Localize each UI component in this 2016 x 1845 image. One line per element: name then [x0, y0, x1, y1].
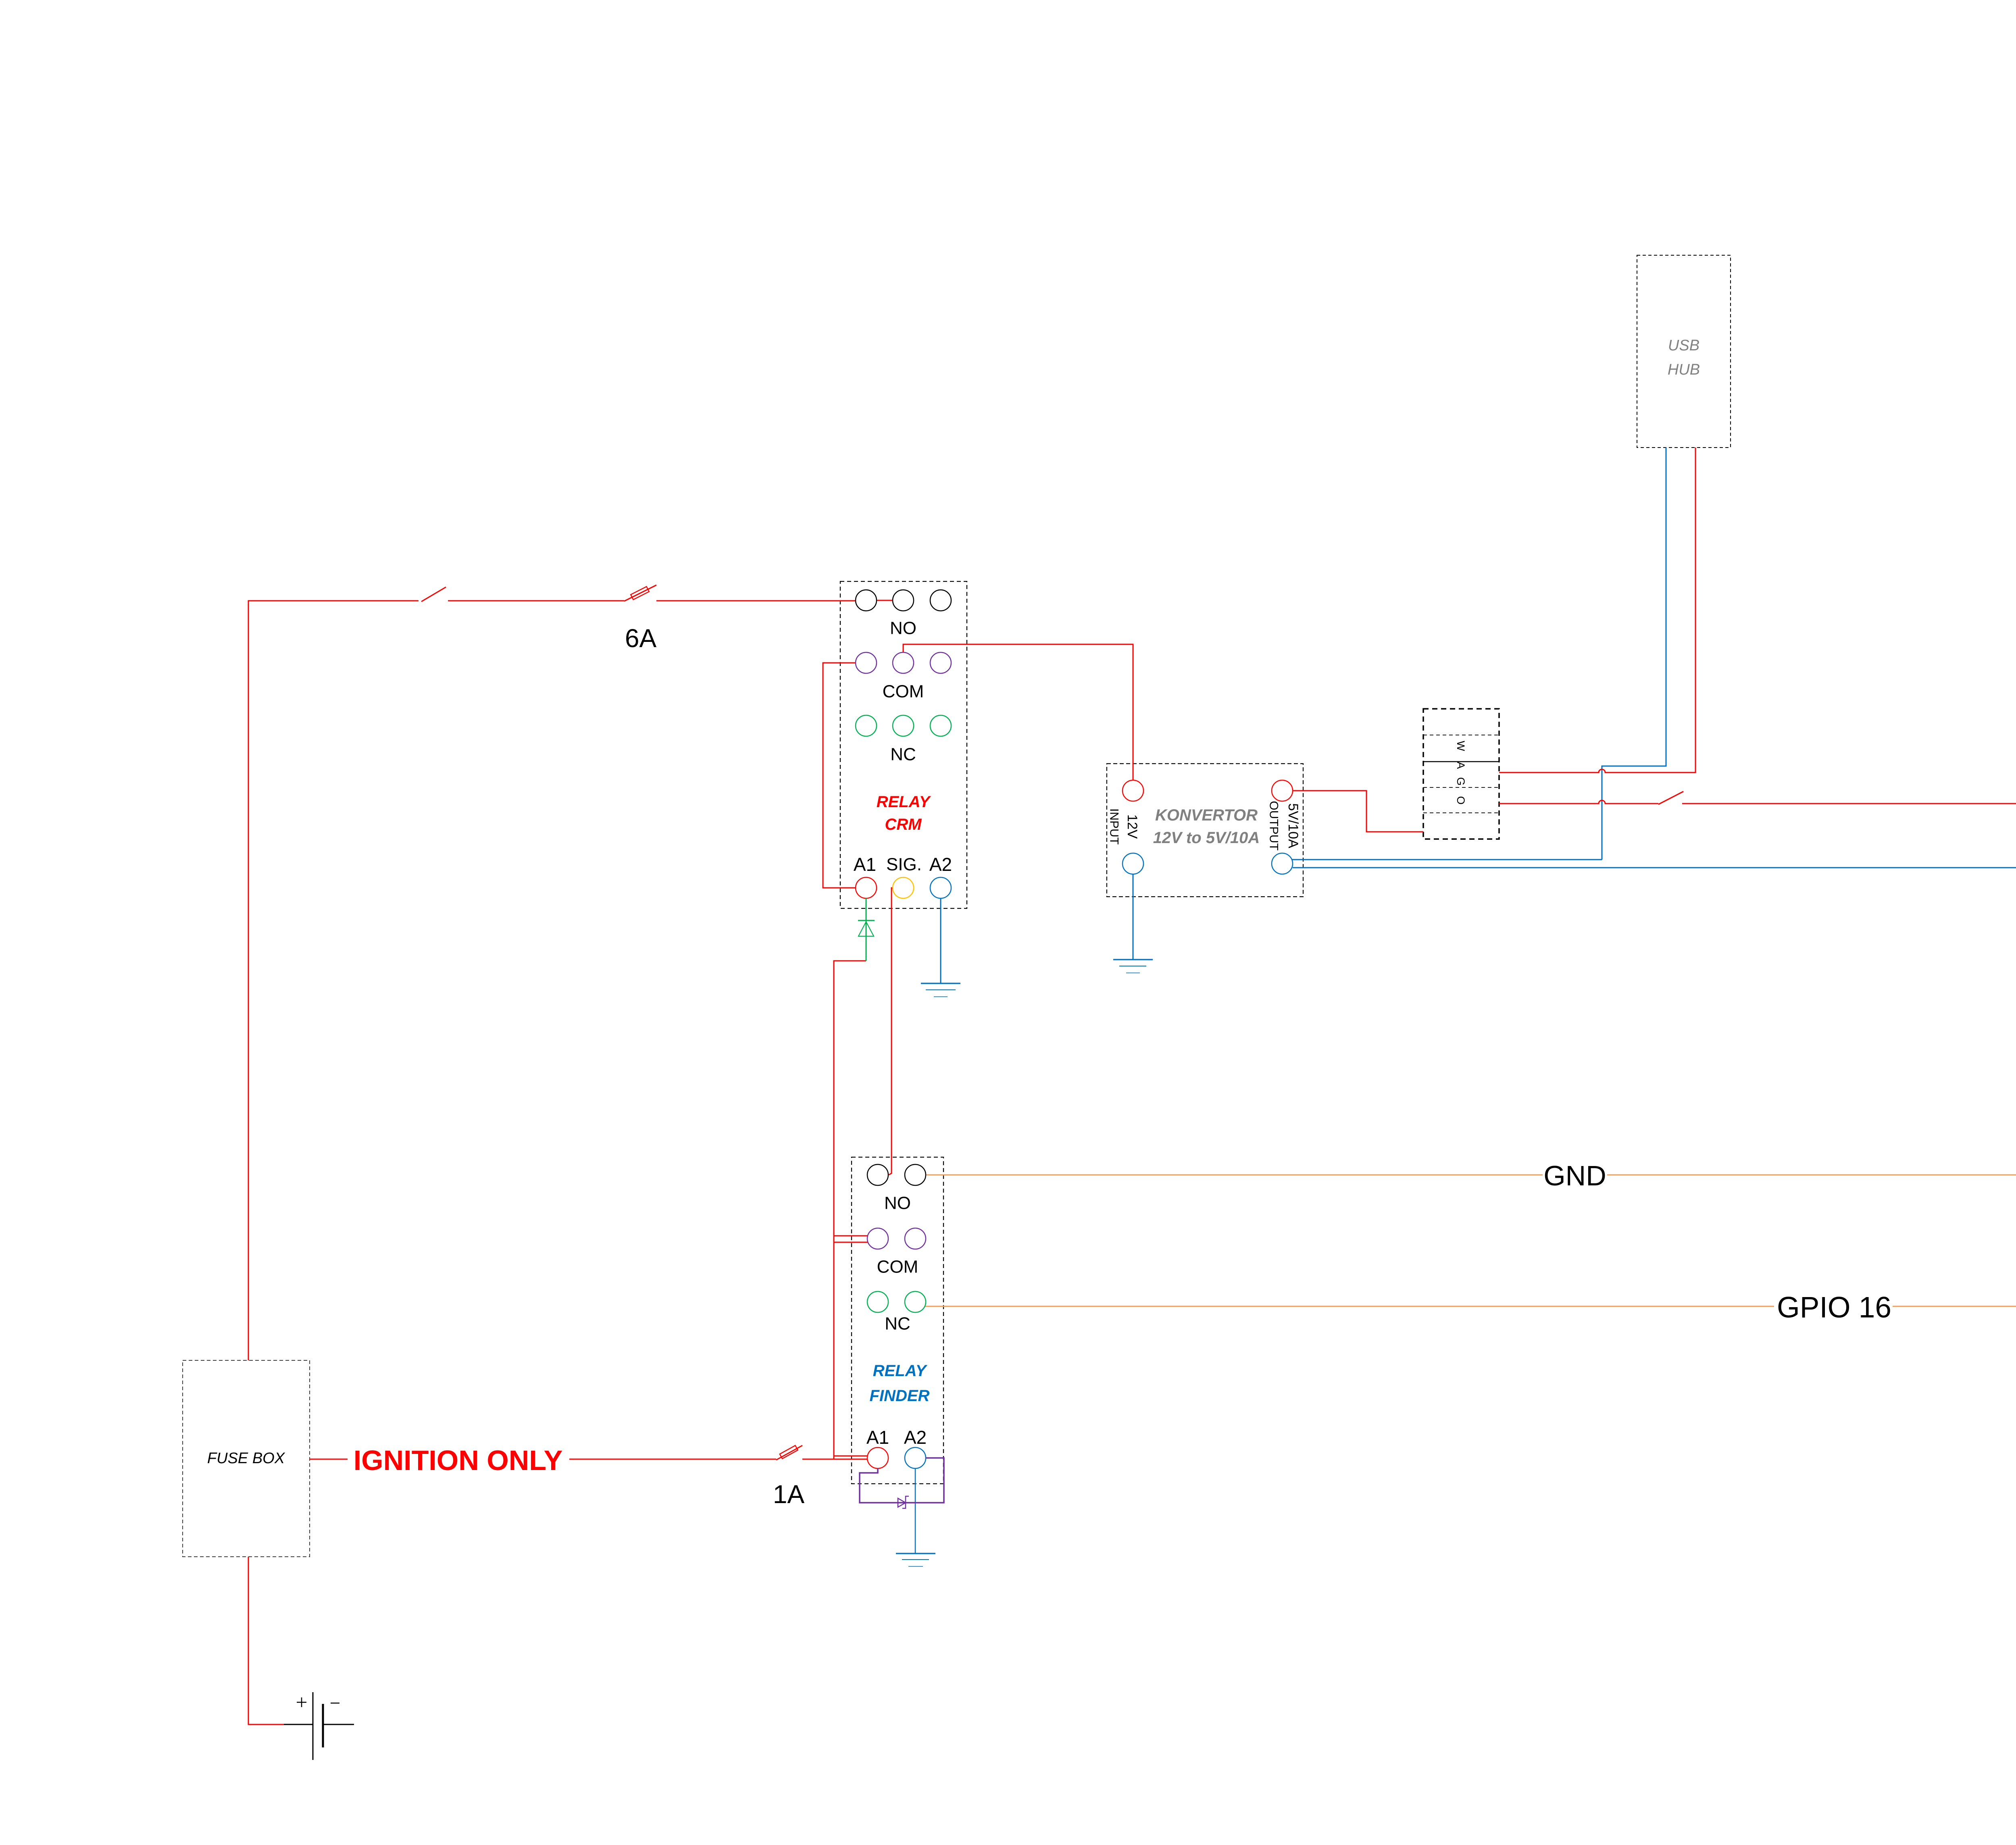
wire: konvertor blue input to ground — [1133, 874, 1134, 960]
relay CRM pin SIG — [893, 877, 914, 898]
switch on 5V feed to Pi — [1658, 791, 1683, 804]
svg-text:GPIO 16: GPIO 16 — [1777, 1291, 1891, 1324]
konvertor 12V input pin — [1123, 780, 1143, 801]
wire: finder A2 to ground — [915, 1468, 916, 1553]
wire: diode to finder COM / A1 (red vertical) — [834, 961, 866, 1459]
svg-text:A2: A2 — [929, 854, 952, 875]
svg-text:A2: A2 — [904, 1427, 927, 1448]
svg-text:1A: 1A — [773, 1480, 805, 1509]
wire: CRM SIG down to finder NO pin — [889, 888, 893, 1175]
wire: WAGO to USB hub (red, with hop) — [1499, 448, 1695, 773]
svg-text:CRM: CRM — [885, 816, 922, 833]
svg-text:5V/10A: 5V/10A — [1285, 803, 1301, 848]
relay FINDER COM pins — [867, 1228, 888, 1249]
wire: ignition only feed from fuse box — [310, 1459, 348, 1460]
wire: CRM COM-left to A1 loop — [823, 663, 856, 888]
USB hub box — [1637, 255, 1731, 448]
wire: finder A1-A2 suppressor loop (purple) — [860, 1458, 944, 1503]
konvertor input GND pin — [1123, 853, 1143, 874]
svg-text:GND: GND — [1543, 1160, 1606, 1191]
wire: CRM COM-mid to konvertor 12V input — [903, 644, 1133, 780]
relay CRM pin A1 — [856, 877, 877, 898]
wire: GND from finder NO to GPIO — [926, 1174, 1543, 1176]
wire: 1A fuse to junction — [802, 1459, 834, 1460]
konvertor 5V/10A output pin — [1272, 780, 1293, 801]
fuse F1 6A (slanted cartridge) — [624, 585, 656, 601]
wire: GPIO 16 from finder NC to GPIO — [925, 1306, 1774, 1307]
relay FINDER pin A2 — [905, 1447, 926, 1468]
wire: branch to finder A1 pin (doubled) — [834, 1456, 868, 1457]
svg-text:USB: USB — [1668, 337, 1699, 354]
svg-text:6A: 6A — [625, 624, 657, 653]
svg-text:A1: A1 — [854, 854, 876, 875]
svg-text:SIG.: SIG. — [886, 855, 922, 875]
wire: konvertor blue output lower (to Pi USB-C) — [1293, 868, 2016, 929]
ground (CRM A2) — [921, 983, 960, 997]
svg-text:A: A — [1455, 762, 1467, 769]
svg-text:RELAY: RELAY — [877, 793, 931, 811]
WAGO terminal block box — [1423, 709, 1499, 839]
relay CRM NO pins — [856, 590, 877, 611]
wire: fuse box top up to 6A line — [248, 601, 419, 1360]
svg-text:KONVERTOR: KONVERTOR — [1155, 806, 1258, 824]
relay CRM box — [840, 581, 967, 908]
wire: branch to finder COM pin (doubled) — [834, 1235, 868, 1237]
wire: blue riser to USB hub — [1602, 448, 1666, 860]
svg-text:FINDER: FINDER — [870, 1387, 930, 1405]
svg-text:INPUT: INPUT — [1108, 808, 1121, 845]
relay CRM pin A2 — [930, 877, 951, 898]
svg-text:OUTPUT: OUTPUT — [1267, 801, 1281, 850]
svg-text:NC: NC — [885, 1314, 910, 1334]
wire: konvertor red output to WAGO — [1293, 791, 1423, 832]
wire: battery + to fuse box (red, left vertical) — [248, 1557, 284, 1724]
battery B1 — [297, 1692, 354, 1760]
svg-text:12V to 5V/10A: 12V to 5V/10A — [1153, 829, 1260, 847]
svg-text:HUB: HUB — [1668, 361, 1700, 378]
svg-text:O: O — [1455, 796, 1467, 804]
wire: switch to Pi USB-C (red) — [1682, 804, 2016, 929]
switch on 6A feed line — [421, 587, 446, 602]
svg-text:G: G — [1455, 777, 1467, 785]
svg-text:RELAY: RELAY — [873, 1362, 928, 1380]
relay CRM NC pins — [856, 715, 877, 736]
wire: CRM A2 to ground — [940, 898, 941, 983]
relay FINDER NC pins — [867, 1291, 888, 1312]
relay CRM COM pins — [856, 652, 877, 673]
svg-text:COM: COM — [877, 1257, 918, 1277]
fuse F2 1A (slanted cartridge) — [776, 1445, 802, 1460]
svg-text:A1: A1 — [866, 1427, 889, 1448]
konvertor output GND pin — [1272, 853, 1293, 874]
konvertor box — [1107, 764, 1303, 897]
wire: battery positive link (black) — [284, 1724, 313, 1725]
relay FINDER NO pins — [867, 1164, 888, 1185]
ground (finder A2) — [896, 1553, 935, 1566]
wire: 6A fuse to relay CRM NO pin — [656, 600, 856, 602]
ground (konvertor input) — [1113, 960, 1153, 973]
svg-text:IGNITION ONLY: IGNITION ONLY — [354, 1445, 563, 1476]
svg-text:NC: NC — [890, 745, 916, 764]
wire: switch to 6A fuse — [448, 600, 624, 602]
svg-text:FUSE BOX: FUSE BOX — [207, 1450, 285, 1467]
diode D2 (zener, finder coil) — [898, 1496, 909, 1508]
svg-text:12V: 12V — [1125, 814, 1140, 839]
relay FINDER box — [852, 1157, 943, 1484]
svg-text:COM: COM — [883, 682, 924, 702]
wire: konvertor blue output upper (to USB hub) — [1291, 859, 1602, 860]
relay FINDER pin A1 — [867, 1447, 888, 1468]
svg-text:W: W — [1455, 741, 1467, 751]
svg-text:NO: NO — [884, 1193, 911, 1213]
wire: WAGO to switch (red, with hop) — [1499, 800, 1658, 804]
wire: CRM NO-left to NO-mid link — [877, 600, 893, 601]
svg-text:NO: NO — [890, 618, 916, 638]
diode D1 (flyback, CRM A1) — [858, 898, 875, 961]
fuse box — [183, 1360, 310, 1557]
